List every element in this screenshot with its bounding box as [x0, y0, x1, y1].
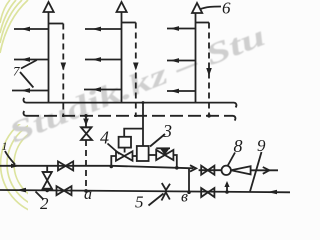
return main left break hook	[23, 111, 26, 116]
flow arrow down on return riser St2	[133, 63, 139, 71]
marker point 5 on return line	[162, 183, 171, 201]
gate valve on return drop (vertical bowtie)	[81, 127, 93, 140]
junction node supply main / elevator vertical	[142, 101, 145, 104]
junction node a	[84, 189, 88, 193]
pipe elevator to gate valve	[149, 154, 157, 156]
radiator branch arrow St3 floor2	[167, 58, 196, 63]
svg-text:9: 9	[257, 136, 266, 155]
return drop continuation (dashed) to node a	[85, 140, 87, 191]
riser St3 top stub to return riser	[196, 22, 210, 24]
junction node suction / return	[225, 190, 229, 194]
impulse line to valve 4 actuator	[124, 129, 143, 137]
return drop pipe from return main	[85, 116, 87, 128]
flow arrow down on return drop	[83, 119, 89, 127]
pump discharge pipe	[251, 169, 278, 171]
elevator U3 body box	[137, 146, 149, 161]
network supply pipe 1	[0, 166, 194, 168]
svg-text:2: 2	[40, 194, 49, 211]
air vent triangle on riser St1	[44, 2, 54, 12]
flow arrow down on return riser St1	[61, 63, 67, 71]
flow arrow left on return outlet	[17, 188, 27, 193]
return main (dashed horizontal)	[26, 115, 233, 117]
watermark text	[5, 20, 270, 149]
open flow arrow on discharge	[263, 167, 270, 174]
supply main (top horizontal)	[26, 102, 234, 104]
supply main left break hook	[23, 98, 26, 103]
valve on return before node (bowtie)	[201, 188, 214, 197]
junction node bypass / return	[45, 189, 49, 193]
return riser St2 (dashed)	[135, 23, 137, 118]
pump diffuser cone	[231, 166, 251, 174]
radiator branch arrow St3 floor3	[167, 26, 196, 31]
return main right break hook	[233, 116, 235, 121]
svg-text:7: 7	[13, 64, 20, 79]
branch down to node v	[188, 168, 190, 192]
riser St2 vertical	[121, 12, 123, 103]
flow arrow left on return right side	[268, 190, 278, 195]
valve on pump suction (bowtie)	[201, 166, 214, 175]
air vent triangle on riser St3	[192, 3, 202, 13]
riser St1 vertical	[48, 12, 50, 103]
svg-text:4: 4	[100, 128, 109, 148]
gate valve with wedge (bowtie)	[156, 148, 173, 160]
svg-text:в: в	[181, 189, 188, 206]
pipe valve4 to elevator	[133, 155, 137, 157]
flow arrow right on supply inlet	[11, 164, 20, 168]
bypass jumper pipe	[46, 166, 48, 172]
leader label 5	[149, 194, 164, 206]
supply main right break hook	[234, 103, 236, 108]
open flow arrow at supply end	[190, 165, 196, 171]
pump suction stub from return	[226, 183, 228, 193]
radiator branch arrow St3 floor1	[167, 89, 196, 94]
junction node return riser St3 / return main	[207, 114, 211, 118]
pipe valve4 to supply tap	[111, 156, 116, 166]
leader label 2	[36, 192, 44, 200]
leader label 3	[150, 134, 165, 147]
radiator branch arrow St1 floor1	[12, 88, 49, 93]
hot water pipe to pump	[199, 169, 222, 171]
leader label 4	[108, 144, 120, 155]
pump U8 circle	[222, 166, 231, 175]
junction node supply tap	[110, 165, 114, 169]
radiator branch arrow St1 floor3	[14, 27, 49, 32]
junction node mixing tap	[175, 166, 179, 170]
radiator branch arrow St2 floor2	[85, 57, 122, 62]
svg-text:6: 6	[222, 0, 231, 18]
svg-text:Studik.kz – Stu: Studik.kz – Stu	[5, 20, 270, 149]
svg-text:5: 5	[135, 193, 144, 212]
air vent triangle on riser St2	[117, 2, 127, 12]
leader label 7 upper	[21, 60, 37, 69]
network return pipe 2	[0, 190, 290, 192]
radiator branch arrow St1 floor2	[14, 57, 49, 62]
leader label 7 lower	[20, 72, 33, 88]
return riser St1 (dashed)	[62, 24, 64, 118]
junction node v	[187, 190, 191, 194]
valve 4 stem	[124, 148, 126, 153]
elevator vertical pipe to supply main	[142, 103, 144, 146]
leader label 1	[5, 151, 15, 165]
valve on return outlet (bowtie)	[57, 186, 72, 195]
valve on supply inlet (bowtie)	[58, 161, 73, 170]
radiator branch arrow St2 floor3	[85, 27, 122, 32]
svg-text:1: 1	[2, 139, 8, 153]
leader label 6	[200, 7, 222, 10]
riser St3 vertical	[195, 13, 197, 103]
riser St2 top stub to return riser	[122, 22, 136, 24]
svg-text:8: 8	[234, 136, 243, 156]
valve 4 actuator box	[119, 137, 131, 148]
return riser St3 (dashed)	[208, 23, 210, 117]
svg-text:а: а	[84, 186, 92, 203]
valve on bypass jumper (vertical bowtie)	[42, 172, 53, 189]
watermark arcs top-left	[0, 0, 28, 53]
flow arrow up on suction stub	[224, 181, 229, 187]
svg-text:3: 3	[162, 121, 172, 141]
watermark arcs bottom-left	[1, 113, 104, 216]
radiator branch arrow St2 floor1	[84, 87, 122, 92]
junction node return drop / return main	[84, 114, 88, 118]
leader label 8	[228, 153, 235, 166]
pipe gate valve down to mixing line	[173, 155, 176, 168]
leader label 9	[250, 152, 262, 192]
riser St1 top stub to return riser	[49, 23, 64, 25]
flow arrow down on return riser St3	[206, 68, 212, 76]
control valve 4 (bowtie)	[116, 151, 133, 160]
